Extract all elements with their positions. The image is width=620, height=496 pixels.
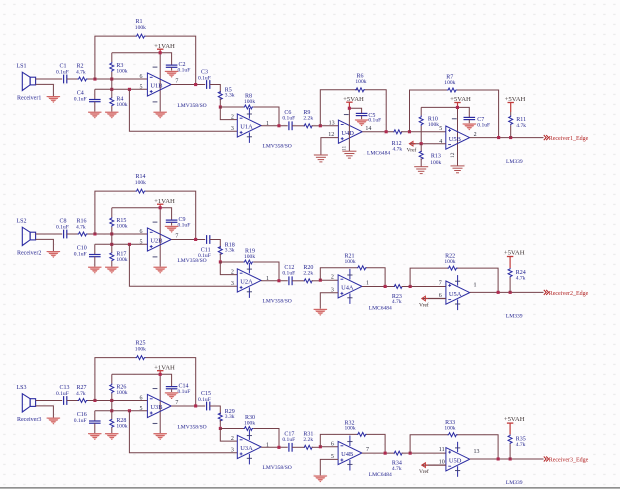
svg-text:R13: R13 [431, 154, 441, 160]
capacitor C16 [89, 411, 101, 433]
svg-text:Vref: Vref [419, 468, 429, 475]
svg-text:100k: 100k [116, 69, 127, 75]
resistor R23 [394, 285, 402, 289]
wire R23 to pin of U5A [402, 286, 446, 288]
svg-text:+5VAH: +5VAH [504, 250, 525, 257]
svg-text:100k: 100k [444, 259, 455, 265]
ground at C16 [88, 433, 102, 440]
wire supply rail [112, 374, 172, 433]
pin out of U4A [366, 281, 369, 287]
svg-text:2: 2 [231, 436, 234, 442]
wire R34 to pin of U5D [402, 452, 446, 454]
pin 3 of U2A [231, 281, 234, 287]
resistor R19 [244, 260, 254, 264]
wire R20 to next stage [312, 280, 321, 282]
wire into pin of U4A [320, 279, 338, 281]
resistor R25 [136, 356, 146, 360]
label R8 [244, 93, 255, 105]
label LMC6484 at U4B [369, 472, 392, 478]
svg-text:12: 12 [450, 152, 456, 158]
svg-text:6: 6 [331, 441, 334, 447]
power stubs of U2A [247, 263, 252, 298]
label R11 [516, 117, 526, 129]
op-amp U5A [446, 281, 470, 304]
junction at U4A input [319, 279, 322, 282]
svg-text:U4A: U4A [341, 285, 354, 292]
svg-text:LMV358/SO: LMV358/SO [263, 144, 292, 150]
svg-text:2.2k: 2.2k [303, 437, 313, 443]
pin bottom of U5A [439, 293, 442, 299]
label R1 [135, 19, 146, 31]
resistor R30 [244, 427, 254, 431]
label C17 [282, 432, 295, 443]
wire LS1 bottom pin to ground [36, 84, 54, 96]
label C1 [56, 64, 69, 76]
ground pin of U3B [153, 433, 167, 440]
pin 7 of U2B [175, 234, 178, 240]
ground at R17 [105, 267, 119, 274]
svg-text:U3B: U3B [150, 404, 162, 411]
svg-text:11: 11 [342, 146, 348, 151]
svg-text:2: 2 [331, 275, 334, 281]
svg-text:100k: 100k [244, 99, 255, 105]
junction at R15 bottom [110, 232, 113, 235]
label LM339 at U5A [506, 313, 523, 319]
svg-text:2.2k: 2.2k [303, 270, 313, 276]
junction at second-stage output [277, 124, 280, 127]
svg-text:LMV358/SO: LMV358/SO [177, 258, 206, 264]
label C6 [282, 110, 295, 121]
wire R2 to pin6 of U1B [88, 78, 148, 80]
ground at C9 [165, 226, 179, 233]
resistor R2 [78, 77, 88, 81]
ground at LS1 [47, 96, 61, 103]
label R21 [345, 254, 356, 265]
junction at R6 loop right [385, 130, 388, 133]
junction at R32 loop right [384, 452, 387, 455]
svg-text:LM339: LM339 [506, 480, 523, 486]
wire R3 to R4 divider [111, 79, 113, 89]
wire bias to pin3 of U3A [129, 411, 237, 453]
svg-text:0.1uF: 0.1uF [74, 418, 87, 424]
ground at U4A + input [314, 309, 328, 316]
pin out of U5D [474, 449, 480, 455]
pin 1 of U3A [266, 443, 269, 449]
pin top of U5A [439, 280, 442, 286]
svg-text:0.1uF: 0.1uF [198, 397, 211, 403]
resistor R34 [394, 451, 402, 455]
svg-text:4.7k: 4.7k [76, 391, 86, 397]
pin 1 of U1A [266, 121, 269, 127]
capacitor C7 [464, 117, 476, 123]
svg-text:100k: 100k [116, 102, 127, 108]
wire C1 to R2 [67, 78, 78, 80]
pin bottom of U4B [331, 454, 334, 460]
resistor R24 [508, 268, 512, 292]
resistor R9 [304, 124, 312, 128]
resistor R32 [357, 432, 367, 436]
wire bias to pin3 of U2A [129, 244, 237, 286]
junction at second-stage output [277, 446, 280, 449]
svg-text:LS2: LS2 [17, 219, 27, 225]
power stubs of U4A [347, 269, 352, 304]
label R26 [116, 385, 127, 397]
pin 3 of U1A [231, 126, 234, 132]
label R17 [116, 251, 127, 263]
svg-text:Vref: Vref [419, 301, 429, 308]
wire C11 to R18 [210, 240, 221, 248]
speaker LS1 [22, 72, 35, 90]
capacitor C13 [64, 396, 67, 405]
svg-text:0.1uF: 0.1uF [198, 75, 211, 81]
svg-text:0.1uF: 0.1uF [282, 270, 295, 276]
resistor R33 [448, 433, 458, 437]
wire bias line to pin5 of U3B [95, 410, 148, 412]
junction at R21 loop right [384, 285, 387, 288]
svg-text:3.3k: 3.3k [225, 248, 235, 254]
label R4 [116, 96, 127, 108]
wire C3 to R5 [210, 85, 221, 93]
wire +5VAH rail to C5 and supply pin [344, 108, 362, 151]
pin 2 of U1A [231, 114, 234, 120]
capacitor C11 [207, 235, 210, 244]
svg-text:Vref: Vref [407, 147, 417, 154]
pin top of U5D [439, 447, 445, 453]
svg-text:6: 6 [140, 395, 143, 401]
capacitor C8 [64, 230, 67, 239]
svg-text:3: 3 [231, 448, 234, 454]
wire C8 to R16 [67, 233, 78, 235]
power port +5VAH at R11 [505, 96, 526, 112]
pin 5 of U1B [140, 84, 143, 90]
resistor R4 [110, 89, 114, 111]
label C14 [178, 384, 191, 396]
resistor R16 [78, 232, 88, 236]
capacitor C6 [289, 121, 292, 130]
wire C12 to R20 [292, 280, 305, 282]
op-amp U1B [147, 73, 171, 96]
resistor R6 [355, 88, 365, 92]
wire C6 to R9 [292, 125, 305, 127]
junction at R17 top [110, 243, 113, 246]
svg-text:13: 13 [329, 120, 335, 126]
junction at feedback tap [93, 399, 96, 402]
junction at R11 bottom [509, 136, 512, 139]
wire U3B output to C15 [171, 405, 205, 407]
label R31 [303, 432, 313, 443]
label R23 [392, 294, 402, 305]
ground pin of U1B [153, 112, 167, 119]
svg-text:100k: 100k [116, 224, 127, 230]
svg-text:+5VAH: +5VAH [504, 416, 525, 423]
pin 13 of U4D [329, 120, 335, 126]
resistor R11 [509, 112, 513, 138]
label R35 [516, 437, 526, 448]
power port +5VAH at R24 [504, 250, 525, 268]
pin top of U4A [331, 275, 334, 281]
ground at C5 [355, 119, 369, 126]
svg-text:+1VAH: +1VAH [154, 364, 175, 371]
label R25 [135, 341, 146, 353]
label C4 [74, 91, 87, 103]
resistor R15 [110, 208, 114, 234]
svg-text:LMV358/SO: LMV358/SO [263, 299, 292, 305]
svg-text:4.7k: 4.7k [516, 442, 526, 448]
junction at R5 bottom [219, 106, 222, 109]
label LMC6484 at U4D [367, 151, 390, 157]
net port Receiver1_Edge [544, 135, 589, 142]
label LS3 [17, 385, 27, 391]
wire + input of U4B to ground [320, 459, 338, 475]
svg-text:6: 6 [140, 229, 143, 235]
ground pin of U2B [153, 267, 167, 274]
junction at R3 bottom [110, 78, 113, 81]
junction at U4B input [319, 445, 322, 448]
wire U4B output to R34 [362, 452, 395, 454]
wire R7 feedback loop [410, 90, 499, 138]
ground at LS2 [47, 251, 61, 258]
label R9 [303, 110, 313, 121]
junction at first-stage output [194, 238, 197, 241]
pin 12 of U4D [328, 132, 334, 138]
capacitor C10 [89, 244, 101, 266]
svg-text:100k: 100k [444, 426, 455, 432]
wire R32 feedback loop [320, 434, 385, 453]
wire R6 feedback loop [320, 90, 386, 132]
power stubs of U4B [347, 436, 352, 471]
junction at R18 bottom [219, 260, 222, 263]
svg-text:0.1uF: 0.1uF [56, 391, 69, 397]
svg-text:2: 2 [231, 269, 234, 275]
capacitor C15 [207, 402, 210, 411]
ground pin 11 of U4D [342, 146, 357, 159]
svg-text:LM339: LM339 [506, 313, 523, 319]
wire R16 to pin6 of U2B [88, 233, 148, 235]
label R14 [135, 174, 146, 186]
wire to pin2 of U3A [220, 429, 237, 442]
svg-text:4.7k: 4.7k [516, 275, 526, 281]
pin 7 of U3B [175, 400, 178, 406]
pin 5 of U5B [439, 126, 442, 132]
label C8 [56, 219, 69, 231]
junction at R29 bottom [219, 427, 222, 430]
label R33 [444, 420, 455, 431]
svg-text:U5B: U5B [449, 136, 461, 143]
label C12 [282, 265, 295, 276]
wire R31 to next stage [312, 446, 321, 448]
svg-text:5: 5 [140, 406, 143, 412]
svg-text:0.1uF: 0.1uF [74, 251, 87, 257]
ground at LS3 [47, 418, 61, 425]
resistor R20 [304, 279, 312, 283]
power stubs of U1A [247, 108, 252, 143]
junction at R35 bottom [509, 457, 512, 460]
wire feedback loop R14 [95, 191, 196, 239]
svg-text:U4D: U4D [341, 130, 354, 137]
resistor R22 [448, 266, 458, 270]
op-amp U3A [237, 435, 261, 458]
resistor R8 [244, 105, 254, 109]
svg-text:0.1uF: 0.1uF [74, 96, 87, 102]
resistor R35 [508, 435, 512, 459]
wire bias line to pin5 of U2B [95, 243, 148, 245]
capacitor C1 [64, 75, 67, 84]
wire U2B output to C11 [171, 239, 205, 241]
pin 6 of U2B [140, 229, 143, 235]
capacitor C3 [207, 80, 210, 89]
wire bias line to pin5 of U1B [95, 88, 148, 90]
wire U5B output to port [470, 137, 544, 139]
svg-text:100k: 100k [135, 180, 146, 186]
resistor R21 [357, 266, 367, 270]
junction at bias dropper [128, 88, 131, 91]
pin 4 of U5B [439, 139, 442, 145]
power port +1VAH at U2B [154, 198, 175, 208]
junction at R33 loop left [409, 452, 412, 455]
svg-text:LMC6484: LMC6484 [369, 306, 392, 312]
pin out of U4B [366, 447, 369, 453]
op-amp U4B [338, 441, 362, 464]
pin 6 of U3B [140, 395, 143, 401]
svg-text:0.1uF: 0.1uF [178, 389, 191, 395]
label C9 [178, 217, 191, 229]
svg-text:1: 1 [366, 281, 369, 287]
pin 14 of U4D [365, 126, 371, 132]
ground at R4 [105, 112, 119, 119]
svg-text:LS1: LS1 [17, 64, 27, 70]
svg-text:5: 5 [140, 84, 143, 90]
svg-text:Receiver1_Edge: Receiver1_Edge [549, 136, 589, 142]
pin 5 of U2B [140, 239, 143, 245]
wire R30 feedback loop [220, 429, 279, 448]
label Receiver2 [17, 250, 41, 256]
svg-text:U1A: U1A [240, 124, 253, 131]
label R32 [345, 420, 356, 431]
power port +5VAH at U5B [450, 96, 471, 108]
label LS1 [17, 64, 27, 70]
pin 1 of U2A [266, 276, 269, 282]
wire U5D output to port [470, 458, 544, 460]
resistor R10 [419, 107, 423, 143]
label R19 [244, 248, 255, 260]
svg-text:U5D: U5D [449, 457, 462, 464]
wire R12 to pin5 of U5B [401, 131, 446, 133]
junction at supply rail [159, 51, 162, 54]
svg-text:100k: 100k [116, 257, 127, 263]
pin 2 of U3A [231, 436, 234, 442]
resistor R26 [110, 374, 114, 400]
pin 6 of U1B [140, 74, 143, 80]
wire R26 to R28 divider [111, 401, 113, 411]
wire R9 to next stage [312, 125, 321, 127]
wire feedback loop R25 [95, 358, 196, 406]
wire R19 feedback loop [220, 262, 279, 281]
wire C15 to R29 [210, 406, 221, 414]
wire C13 to R27 [67, 400, 78, 402]
junction at first-stage output [194, 83, 197, 86]
svg-text:Receiver1: Receiver1 [17, 95, 41, 101]
svg-text:+1VAH: +1VAH [154, 198, 175, 205]
pin 3 of U3A [231, 448, 234, 454]
ground at R28 [105, 433, 119, 440]
wire bias to pin3 of U1A [129, 89, 237, 131]
svg-text:100k: 100k [244, 254, 255, 260]
svg-text:LS3: LS3 [17, 385, 27, 391]
svg-text:13: 13 [474, 449, 480, 455]
wire U4D output to R12 [362, 131, 394, 133]
label R15 [116, 218, 127, 230]
label R24 [516, 270, 526, 281]
svg-text:100k: 100k [444, 80, 455, 86]
wire LS3 bottom pin to ground [36, 406, 54, 418]
power port Vref [419, 296, 446, 308]
capacitor C2 [166, 65, 178, 70]
resistor R3 [110, 53, 114, 79]
svg-text:U4B: U4B [341, 451, 353, 458]
pin bottom of U5D [439, 459, 445, 465]
svg-text:Receiver3_Edge: Receiver3_Edge [549, 458, 589, 464]
op-amp U5D [446, 448, 470, 471]
junction at divider node [420, 142, 423, 145]
pin 2 of U5B [474, 132, 477, 138]
svg-text:0.1uF: 0.1uF [198, 253, 211, 259]
label C13 [56, 385, 70, 397]
wire R8 feedback loop [220, 107, 279, 126]
capacitor C14 [166, 387, 178, 392]
svg-text:3: 3 [231, 281, 234, 287]
capacitor C9 [166, 220, 178, 225]
label LM339 at U5D [506, 480, 523, 486]
bottom window border [0, 487, 620, 496]
svg-text:100k: 100k [135, 346, 146, 352]
svg-text:100k: 100k [116, 390, 127, 396]
wire to pin2 of U2A [220, 262, 237, 275]
wire R22 feedback loop [410, 268, 498, 292]
svg-text:3: 3 [231, 126, 234, 132]
svg-text:7: 7 [175, 79, 178, 85]
junction at R7 loop left [408, 130, 411, 133]
wire LS3 top pin to C13 [36, 400, 63, 402]
label Receiver1 [17, 95, 41, 101]
svg-text:0.1uF: 0.1uF [368, 118, 381, 124]
label R16 [76, 219, 87, 231]
svg-text:U2A: U2A [240, 279, 253, 286]
ground at U4D pin12 [314, 155, 328, 162]
wire U1B output to C3 [171, 84, 205, 86]
svg-text:6: 6 [140, 74, 143, 80]
label R29 [225, 409, 235, 420]
junction at U4D input [319, 124, 322, 127]
svg-text:100k: 100k [244, 421, 255, 427]
svg-text:4.7k: 4.7k [393, 147, 403, 153]
label LMV358/SO at U3A [263, 465, 292, 471]
wire U4A output to R23 [362, 286, 395, 288]
svg-text:100k: 100k [355, 79, 366, 85]
label R30 [244, 415, 255, 427]
junction at feedback tap [93, 232, 96, 235]
junction at R24 bottom [509, 291, 512, 294]
capacitor C17 [289, 443, 292, 452]
junction at R4 top [110, 88, 113, 91]
wire LS1 top pin to C1 [36, 78, 63, 80]
svg-text:100k: 100k [428, 122, 439, 128]
label C5 [368, 113, 381, 124]
svg-text:U2B: U2B [150, 238, 162, 245]
wire U5A output to port [470, 291, 544, 293]
power port +5VAH at U4D [343, 96, 364, 108]
junction at U5B supply [456, 106, 459, 109]
svg-text:100k: 100k [345, 426, 356, 432]
